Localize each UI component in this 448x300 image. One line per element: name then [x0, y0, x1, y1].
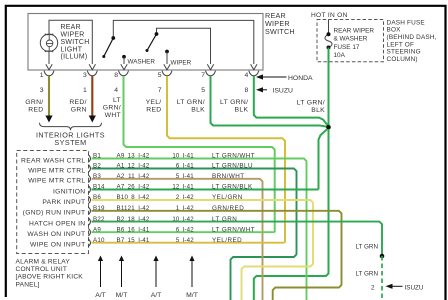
svg-text:[ABOVE RIGHT KICK: [ABOVE RIGHT KICK — [16, 274, 84, 281]
svg-text:(GND) RUN INPUT: (GND) RUN INPUT — [23, 210, 86, 217]
svg-text:LT GRN/: LT GRN/ — [177, 99, 205, 106]
svg-text:LT GRN: LT GRN — [355, 244, 378, 251]
svg-text:WIPE MTR CTRL: WIPE MTR CTRL — [28, 178, 85, 185]
svg-text:WIPE ON INPUT: WIPE ON INPUT — [30, 242, 85, 249]
svg-text:PARK INPUT: PARK INPUT — [42, 199, 85, 206]
svg-text:I-42: I-42 — [138, 205, 150, 212]
svg-text:REAR WIPER: REAR WIPER — [334, 27, 375, 34]
svg-text:10: 10 — [172, 216, 180, 223]
svg-text:A/T: A/T — [95, 292, 106, 299]
svg-text:B2: B2 — [117, 216, 125, 223]
svg-text:I-41: I-41 — [183, 173, 195, 180]
svg-text:I-41: I-41 — [183, 163, 195, 170]
svg-text:5: 5 — [201, 87, 205, 94]
svg-text:A1: A1 — [117, 163, 125, 170]
svg-text:YEL/: YEL/ — [146, 99, 162, 106]
svg-text:5: 5 — [176, 237, 180, 244]
svg-text:WASHER: WASHER — [128, 58, 156, 65]
svg-text:I-41: I-41 — [183, 184, 195, 191]
svg-text:7: 7 — [201, 72, 205, 79]
svg-text:LT GRN: LT GRN — [355, 271, 378, 278]
svg-text:B6: B6 — [93, 194, 101, 201]
svg-text:WIPE MTR CTRL: WIPE MTR CTRL — [28, 167, 85, 174]
svg-text:A2: A2 — [117, 173, 125, 180]
svg-text:I-42: I-42 — [183, 205, 195, 212]
svg-text:7: 7 — [158, 87, 162, 94]
svg-text:A10: A10 — [93, 237, 105, 244]
svg-text:16: 16 — [128, 226, 136, 233]
svg-text:RED: RED — [28, 107, 43, 114]
svg-text:LT GRN/BLK: LT GRN/BLK — [212, 184, 253, 191]
svg-text:3: 3 — [83, 72, 87, 79]
svg-text:WIPER: WIPER — [61, 32, 85, 39]
svg-text:12: 12 — [128, 163, 136, 170]
svg-text:& WASHER: & WASHER — [334, 36, 368, 43]
svg-text:5: 5 — [176, 173, 180, 180]
svg-text:B2: B2 — [93, 163, 101, 170]
svg-text:B6: B6 — [117, 226, 125, 233]
svg-text:REAR WASH CTRL: REAR WASH CTRL — [21, 157, 85, 164]
svg-text:13: 13 — [128, 153, 136, 160]
svg-text:6: 6 — [176, 163, 180, 170]
svg-text:DASH FUSE: DASH FUSE — [387, 19, 425, 26]
svg-text:4: 4 — [245, 72, 249, 79]
svg-text:CONTROL UNIT: CONTROL UNIT — [16, 266, 68, 273]
svg-text:B1: B1 — [93, 153, 101, 160]
svg-text:15: 15 — [128, 237, 136, 244]
svg-text:LT GRN/WHT: LT GRN/WHT — [212, 226, 255, 233]
svg-text:I-42: I-42 — [183, 194, 195, 201]
svg-text:2: 2 — [176, 194, 180, 201]
svg-text:2: 2 — [371, 284, 375, 291]
svg-text:26: 26 — [128, 184, 136, 191]
svg-text:12: 12 — [172, 184, 180, 191]
svg-text:1: 1 — [40, 72, 44, 79]
svg-text:GRN: GRN — [71, 107, 87, 114]
svg-text:YEL/GRN: YEL/GRN — [212, 194, 243, 201]
svg-text:RED/: RED/ — [69, 99, 86, 106]
svg-text:B3: B3 — [93, 173, 101, 180]
svg-text:A/T: A/T — [151, 292, 162, 299]
svg-text:COLUMN): COLUMN) — [387, 56, 418, 63]
svg-text:HATCH OPEN IN: HATCH OPEN IN — [29, 220, 85, 227]
svg-text:WHT: WHT — [105, 112, 121, 119]
svg-text:I-42: I-42 — [138, 194, 150, 201]
svg-text:WIPER: WIPER — [171, 59, 192, 66]
svg-text:LT GRN/WHT: LT GRN/WHT — [212, 153, 255, 160]
svg-text:LT GRN/: LT GRN/ — [297, 100, 325, 107]
svg-text:HOT IN ON: HOT IN ON — [311, 12, 348, 19]
svg-text:LEFT OF: LEFT OF — [387, 41, 415, 48]
svg-text:SWITCH: SWITCH — [61, 39, 90, 46]
svg-text:IGNITION: IGNITION — [53, 188, 86, 195]
svg-text:I-41: I-41 — [138, 226, 150, 233]
svg-text:4: 4 — [114, 87, 118, 94]
svg-text:FUSE 17: FUSE 17 — [334, 44, 360, 51]
svg-text:LT GRN: LT GRN — [212, 216, 237, 223]
svg-text:BLK: BLK — [235, 107, 249, 114]
svg-text:B11: B11 — [117, 205, 129, 212]
svg-text:A9: A9 — [117, 153, 125, 160]
svg-text:I-42: I-42 — [138, 216, 150, 223]
svg-text:GRN/: GRN/ — [25, 99, 43, 106]
svg-text:B10: B10 — [117, 194, 129, 201]
svg-text:BLK: BLK — [311, 107, 325, 114]
svg-text:LIGHT: LIGHT — [61, 46, 83, 53]
svg-text:A9: A9 — [93, 226, 101, 233]
svg-text:A7: A7 — [117, 184, 125, 191]
svg-text:BOX: BOX — [387, 27, 402, 34]
svg-text:PANEL]: PANEL] — [16, 281, 40, 288]
svg-text:BRN/WHT: BRN/WHT — [212, 173, 245, 180]
svg-text:RED: RED — [146, 107, 161, 114]
svg-text:8: 8 — [245, 87, 249, 94]
svg-text:(ILLUM): (ILLUM) — [61, 54, 88, 61]
svg-text:STEERING: STEERING — [387, 49, 421, 56]
svg-text:I-42: I-42 — [138, 153, 150, 160]
svg-text:1: 1 — [83, 87, 87, 94]
svg-text:WASH ON INPUT: WASH ON INPUT — [27, 231, 85, 238]
svg-text:(BEHIND DASH,: (BEHIND DASH, — [387, 34, 437, 41]
svg-text:B7: B7 — [117, 237, 125, 244]
svg-text:I-42: I-42 — [138, 163, 150, 170]
svg-text:18: 18 — [128, 216, 136, 223]
svg-text:SYSTEM: SYSTEM — [54, 138, 86, 147]
svg-text:LT GRN/BLU: LT GRN/BLU — [212, 163, 253, 170]
svg-text:BLK: BLK — [191, 107, 205, 114]
svg-text:ALARM & RELAY: ALARM & RELAY — [16, 259, 71, 266]
svg-text:I-41: I-41 — [183, 153, 195, 160]
svg-text:M/T: M/T — [186, 292, 198, 299]
svg-text:21: 21 — [128, 205, 136, 212]
svg-text:10: 10 — [172, 153, 180, 160]
svg-text:B14: B14 — [93, 184, 105, 191]
svg-text:GRN/RED: GRN/RED — [212, 205, 244, 212]
svg-text:REAR: REAR — [61, 24, 81, 31]
svg-text:I-42: I-42 — [138, 173, 150, 180]
svg-text:I-42: I-42 — [138, 184, 150, 191]
svg-text:5: 5 — [158, 72, 162, 79]
svg-text:I-42: I-42 — [183, 216, 195, 223]
svg-text:3: 3 — [40, 87, 44, 94]
svg-text:8: 8 — [131, 194, 135, 201]
svg-text:10A: 10A — [334, 52, 346, 59]
svg-text:GRN/: GRN/ — [103, 105, 121, 112]
svg-text:1: 1 — [176, 205, 180, 212]
svg-text:B22: B22 — [93, 216, 105, 223]
svg-text:11: 11 — [128, 173, 135, 180]
svg-text:B19: B19 — [93, 205, 105, 212]
svg-text:I-42: I-42 — [183, 226, 195, 233]
svg-text:ISUZU: ISUZU — [405, 284, 424, 291]
svg-text:M/T: M/T — [116, 292, 128, 299]
svg-text:6: 6 — [176, 226, 180, 233]
svg-text:I-42: I-42 — [183, 237, 195, 244]
svg-text:ISUZU: ISUZU — [273, 88, 293, 95]
svg-text:8: 8 — [114, 72, 118, 79]
svg-text:LT GRN/: LT GRN/ — [220, 99, 248, 106]
svg-text:SWITCH: SWITCH — [265, 27, 295, 36]
svg-text:HONDA: HONDA — [288, 75, 313, 82]
svg-text:LT: LT — [113, 97, 121, 104]
svg-text:I-41: I-41 — [138, 237, 150, 244]
svg-text:YEL/RED: YEL/RED — [212, 237, 242, 244]
